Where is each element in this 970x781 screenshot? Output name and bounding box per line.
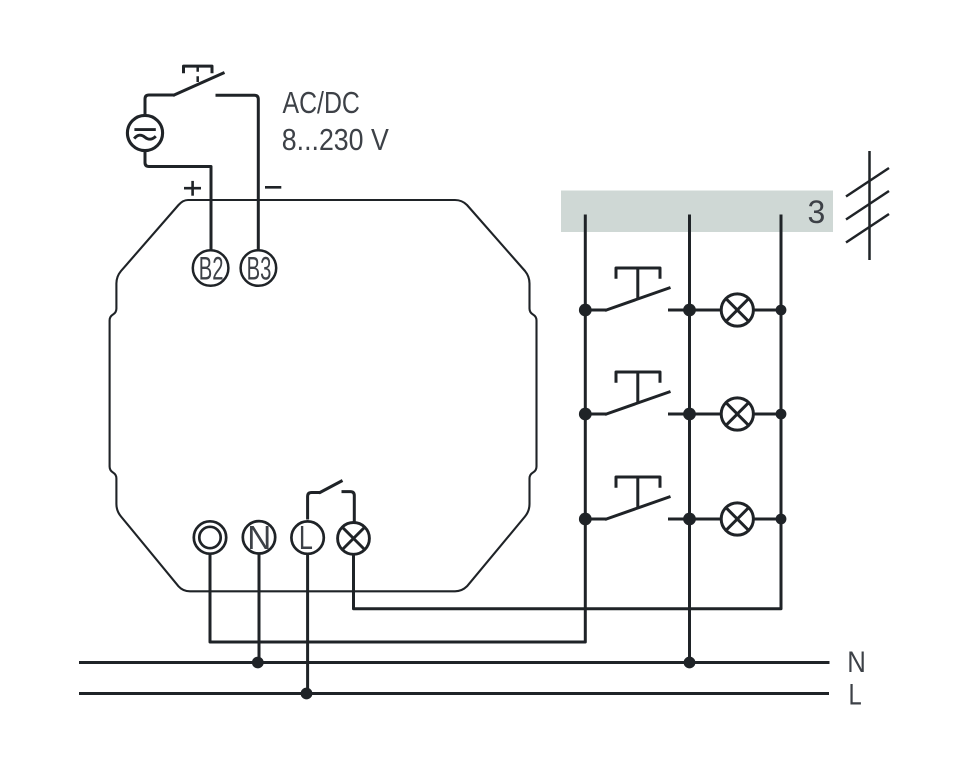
push-button actuator bracket [184,66,213,73]
K2 wire stub from node [585,413,607,416]
push-button K2 [585,372,721,415]
K3 wire stub from node [585,518,607,521]
junction dots row 2 [579,408,787,421]
cable slash symbol (3 conductors) [846,151,889,260]
wire L terminal to L bus [306,554,309,694]
svg-text:L: L [849,678,862,711]
cable bar (3-wire cable marker strip) [561,191,833,233]
K1 wire to lamp branch [668,309,721,312]
lamp E1 [721,294,781,326]
junction dots row 1 [579,304,787,317]
wire N terminal to N bus [258,554,261,663]
K3 actuator bracket [616,477,660,488]
junction dot L-wire on L bus [301,688,313,700]
N bus line [79,661,830,664]
E1 lamp cross stroke 2 [726,299,749,322]
node wire3 row 1 [776,305,787,316]
E2 wire to wire 3 [753,413,781,416]
svg-text:8...230 V: 8...230 V [282,122,389,157]
E2 lamp cross stroke 1 [726,403,749,426]
terminal B3 [241,250,277,286]
AC/DC source G1 circle [127,115,162,150]
node wire2 row 2 [683,408,696,421]
internal relay switch: wire from L terminal [308,493,321,520]
push-button K3 [585,477,721,520]
push-button K1 [585,268,721,311]
K2 contact blade [605,392,671,415]
lamp E3 [721,503,781,535]
wire source top [145,95,175,116]
svg-text:N: N [247,519,271,556]
conductor slash 1 [846,168,889,197]
terminal O (neutral loop) [194,521,226,553]
node wire1 row 1 [579,304,592,317]
terminal L [291,521,323,553]
node wire2 row 1 [683,304,696,317]
conductor slash 3 [846,214,889,243]
junction dot N-wire on N bus [252,657,264,669]
terminal lamp output [338,523,370,555]
svg-text:N: N [847,646,866,679]
K1 contact blade [605,288,671,311]
L bus line [79,692,829,695]
K2 actuator bracket [616,372,660,383]
E3 lamp circle [721,503,753,535]
wire O terminal to load circuit wire 1 [210,215,585,643]
svg-text:L: L [299,519,313,556]
E3 wire to wire 3 [753,518,781,521]
internal relay switch: wire to lamp terminal [342,492,355,522]
E1 lamp circle [721,294,753,326]
K1 actuator bracket [616,268,660,279]
internal relay switch: contact blade [319,481,343,494]
terminal B2 [193,250,229,286]
K2 wire to lamp branch [668,413,721,416]
svg-text:B3: B3 [247,250,272,286]
wire lamp terminal to load circuit wire 3 [354,215,782,609]
plus label [184,181,201,196]
junction dots row 3 [579,513,787,526]
conductor slash 2 [846,191,889,220]
node wire1 row 2 [579,408,592,421]
minus label [265,186,281,189]
K1 actuator stem [636,268,639,299]
svg-text:B2: B2 [199,250,224,286]
cable core line [868,151,871,260]
load circuit wire 2 [688,215,691,663]
junction dot wire2 on N bus [684,657,696,669]
K3 contact blade [605,497,671,520]
node wire1 row 3 [579,513,592,526]
K1 wire stub from node [585,309,607,312]
node wire2 row 3 [683,513,696,526]
node wire3 row 3 [776,514,787,525]
E2 lamp circle [721,398,753,430]
lamp E2 [721,398,781,430]
svg-text:3: 3 [808,194,826,230]
K2 actuator stem [636,372,639,403]
device outline (flush-mount insert housing) [110,200,537,591]
E2 lamp cross stroke 2 [726,403,749,426]
K3 actuator stem [636,477,639,508]
node wire3 row 2 [776,409,787,420]
svg-text:AC/DC: AC/DC [283,85,360,120]
E1 lamp cross stroke 1 [726,299,749,322]
G1 AC wave [134,135,156,139]
E3 lamp cross stroke 2 [726,508,749,531]
actuator dashed stem [196,68,199,83]
K3 wire to lamp branch [668,518,721,521]
terminal N [243,521,275,553]
E3 lamp cross stroke 1 [726,508,749,531]
wire switch to minus [216,95,259,250]
G1 DC bar [134,128,155,131]
push-button switch S1 blade [173,73,225,96]
wire source bottom to plus [145,150,211,250]
E1 wire to wire 3 [753,309,781,312]
